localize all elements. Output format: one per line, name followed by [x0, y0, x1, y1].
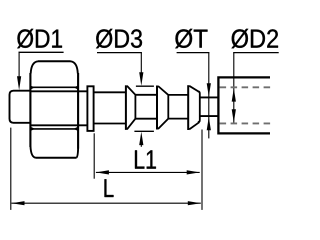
- tube bore hidden line top: [220, 86, 272, 88]
- label ØT: [175, 29, 211, 139]
- chamfer arc blobs: [30, 86, 35, 90]
- L dimension: [11, 128, 201, 210]
- tube bore hidden line bottom: [220, 122, 272, 124]
- shaft barb2 to barb3: [168, 94, 187, 96]
- label ØD1: [17, 29, 64, 90]
- barb 3: [188, 85, 200, 130]
- ØD3 extension lines: [136, 85, 154, 87]
- barb 1: [126, 85, 135, 130]
- label ØD2: [232, 29, 279, 123]
- L1 dimension: [94, 130, 202, 210]
- shaft flange to barb 1: [95, 91, 127, 93]
- hex nut: [30, 61, 78, 157]
- flange: [87, 86, 93, 131]
- shaft barb1 to barb2: [135, 94, 156, 96]
- barb 2: [157, 86, 168, 130]
- tube: [218, 77, 270, 133]
- shaft through nut to flange: [30, 90, 87, 92]
- label ØD3: [96, 29, 143, 147]
- threaded stub (left end): [10, 91, 31, 123]
- neck: [201, 96, 218, 98]
